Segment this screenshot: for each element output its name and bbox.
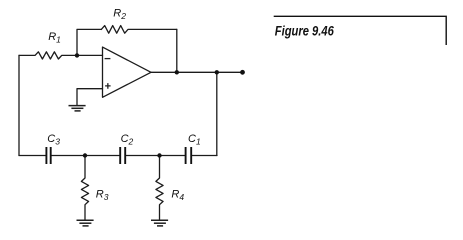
- resistor R2: [101, 26, 177, 34]
- wire C1 to right corner: [192, 155, 217, 157]
- node junction output/right branch: [215, 70, 219, 74]
- svg-text:R3: R3: [96, 189, 109, 203]
- svg-text:R2: R2: [113, 7, 126, 21]
- node junction feedback/output: [175, 70, 179, 74]
- resistor R3: [81, 156, 88, 220]
- wire bottom left segment to C3: [19, 155, 46, 157]
- node output terminal: [240, 70, 245, 75]
- capacitor C2 plates: [119, 147, 121, 164]
- resistor R4: [156, 156, 163, 220]
- node junction R1/opamp: [75, 53, 79, 57]
- capacitor C3 plates: [45, 147, 47, 164]
- wire noninverting input: [77, 89, 103, 106]
- node junction C3/C2/R3: [83, 153, 87, 157]
- node junction C2/C1/R4: [157, 153, 161, 157]
- op-amp minus pin symbol: [105, 58, 111, 60]
- svg-text:C3: C3: [47, 133, 60, 147]
- wire right vertical to feedback network: [216, 72, 218, 155]
- ground (R4): [151, 219, 168, 221]
- ground (op-amp + input): [69, 105, 86, 107]
- svg-text:R1: R1: [48, 31, 61, 45]
- ground (R3): [77, 219, 94, 221]
- wire left vertical: [18, 55, 20, 155]
- wire R2 top loop: [77, 29, 101, 55]
- svg-text:Figure 9.46: Figure 9.46: [275, 23, 334, 39]
- svg-text:R4: R4: [171, 189, 184, 203]
- figure caption rule: [274, 16, 447, 45]
- svg-text:C1: C1: [188, 133, 201, 147]
- capacitor C1 plates: [185, 147, 187, 164]
- wire C3 to C2: [52, 155, 120, 157]
- wire output: [151, 71, 243, 73]
- op-amp plus pin symbol: [105, 83, 111, 89]
- resistor R1: [19, 52, 103, 59]
- svg-text:C2: C2: [121, 133, 134, 147]
- wire C2 to C1: [126, 155, 185, 157]
- op-amp U1: [103, 47, 152, 97]
- wire feedback down to output: [176, 29, 178, 72]
